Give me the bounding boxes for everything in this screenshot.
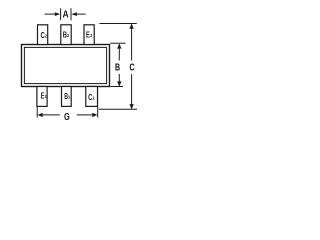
- svg-text:G: G: [64, 112, 70, 123]
- dimension G extension line left: [36, 107, 38, 118]
- svg-text:C: C: [129, 62, 135, 73]
- dimension G extension line right: [97, 107, 99, 118]
- dimension C line lower segment: [131, 74, 133, 109]
- dimension B upper arrowhead: [117, 44, 121, 49]
- pin 2 (B1) bottom-middle lead: [62, 87, 72, 107]
- dimension C lower arrowhead: [129, 104, 133, 109]
- dimension A extension line right: [70, 8, 72, 20]
- dimension G left shaft: [43, 114, 60, 116]
- dimension G right shaft: [77, 114, 93, 116]
- package body inner outline: [24, 47, 106, 83]
- svg-text:A: A: [63, 10, 70, 21]
- dimension A left arrow shaft: [45, 13, 56, 15]
- dimension B lower arrowhead: [117, 81, 121, 86]
- pin 3 (C1) bottom-right lead: [86, 87, 98, 107]
- dimension G right arrowhead: [92, 113, 97, 117]
- extension line pins top right (for C): [100, 23, 137, 25]
- dimension A extension line left: [60, 8, 62, 20]
- pin 1 (E1) bottom-left lead: [37, 87, 47, 107]
- pin 4 (E2) top-right lead: [84, 25, 94, 45]
- dimension C upper arrowhead: [129, 24, 133, 29]
- pin 5 (B2) top-middle lead: [61, 25, 71, 45]
- dimension A right arrow shaft: [76, 13, 85, 15]
- dimension B line lower segment: [118, 74, 120, 86]
- dimension C line upper segment: [131, 24, 133, 61]
- dimension B line upper segment: [118, 44, 120, 61]
- extension line body bottom right (for B): [110, 86, 123, 88]
- pin 6 (C2) top-left lead: [38, 25, 48, 45]
- dimension A left arrowhead: [55, 12, 60, 16]
- package body outer outline: [22, 45, 110, 87]
- extension line body top right (for B): [110, 42, 125, 44]
- dimension G left arrowhead: [38, 113, 43, 117]
- dimension A right arrowhead: [71, 12, 76, 16]
- svg-text:B: B: [115, 62, 120, 73]
- extension line pins bottom right (for C): [99, 108, 137, 110]
